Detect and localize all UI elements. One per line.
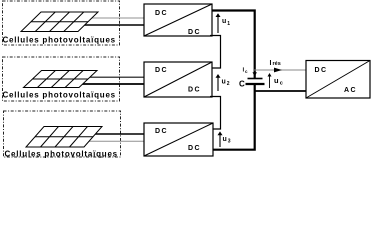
PV panel 3 <box>26 127 102 148</box>
svg-text:DC: DC <box>155 67 168 74</box>
svg-text:Cellules photovoltaïques: Cellules photovoltaïques <box>3 36 116 45</box>
wire: DC/DC3 bottom output to DC bus bottom rail <box>213 85 255 150</box>
voltage arrow uc (DC link voltage) <box>268 73 283 88</box>
DC/DC converter 3 <box>144 123 213 156</box>
current arrow Ires <box>274 68 282 73</box>
PV module 3 dashed enclosure <box>4 111 121 157</box>
svg-text:DC: DC <box>155 128 168 135</box>
capacitor C top plate <box>248 78 263 80</box>
wire: DC/DC2 bottom to DC/DC3 top (series link) <box>210 97 221 130</box>
wire: DC bus top tap to inverter (with grid current) <box>254 69 306 71</box>
DC/DC converter 1 <box>144 4 212 36</box>
svg-text:DC: DC <box>188 87 201 94</box>
voltage arrow u1 <box>216 13 231 33</box>
wire: DC/DC1 bottom to DC/DC2 top (series link) <box>210 36 221 69</box>
svg-text:DC: DC <box>315 67 328 74</box>
PV module 1 dashed enclosure <box>3 1 120 45</box>
svg-text:3: 3 <box>228 139 231 145</box>
wire: PV2 negative to DC/DC converter 2 <box>80 83 144 85</box>
svg-text:DC: DC <box>155 10 168 17</box>
wire: PV1 positive to DC/DC converter 1 <box>86 17 144 19</box>
svg-text:2: 2 <box>227 81 230 87</box>
svg-text:C: C <box>239 80 245 89</box>
wire: PV3 positive to DC/DC converter 3 <box>92 133 144 135</box>
svg-text:u: u <box>274 76 279 85</box>
svg-text:DC: DC <box>188 145 201 152</box>
wire: DC bus bottom tap to inverter <box>254 90 306 92</box>
wire: PV3 negative to DC/DC converter 3 <box>86 140 144 142</box>
DC/DC converter 2 <box>144 62 212 97</box>
svg-text:1: 1 <box>227 21 230 27</box>
wire: PV2 positive to DC/DC converter 2 <box>84 76 144 78</box>
voltage arrow u3 <box>218 131 231 147</box>
svg-text:rés: rés <box>273 61 281 67</box>
svg-text:u: u <box>222 79 226 86</box>
PV panel 2 <box>24 71 98 88</box>
svg-text:AC: AC <box>344 87 357 94</box>
PV panel 1 <box>21 12 98 32</box>
svg-text:u: u <box>222 18 226 25</box>
svg-text:Cellules photovoltaïques: Cellules photovoltaïques <box>3 91 116 100</box>
capacitor C bottom plate <box>246 83 265 85</box>
svg-text:c: c <box>280 81 283 87</box>
svg-text:u: u <box>223 136 227 143</box>
wire: DC/DC1 top output to DC bus <box>212 11 255 79</box>
svg-text:I: I <box>270 60 272 67</box>
current arrow ic (into capacitor, on bus) <box>253 72 257 76</box>
wire: PV1 negative to DC/DC converter 1 <box>82 24 144 26</box>
svg-text:DC: DC <box>188 29 201 36</box>
voltage arrow u2 <box>216 74 230 91</box>
svg-text:Cellules photovoltaïques: Cellules photovoltaïques <box>5 150 118 159</box>
PV module 2 dashed enclosure <box>3 57 120 101</box>
DC/AC inverter <box>306 61 370 99</box>
